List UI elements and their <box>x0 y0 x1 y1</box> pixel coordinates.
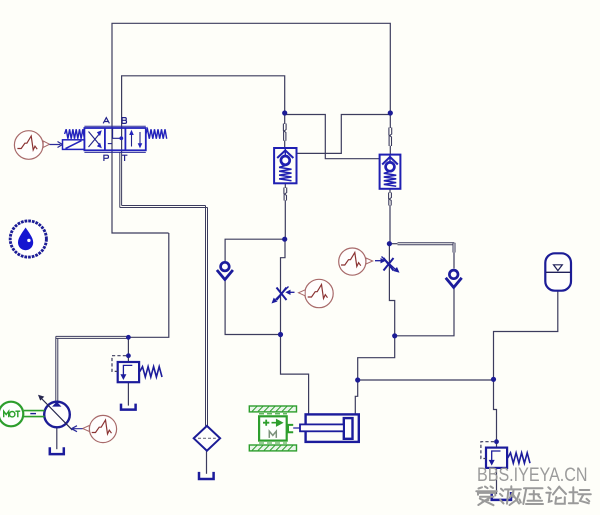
node N3 <box>282 237 287 242</box>
relief valve RV2 <box>481 442 530 468</box>
wire node N8 down to relief valve RV2 <box>494 380 497 448</box>
node N8 <box>491 377 496 382</box>
wire relief valve RV1 branch <box>127 337 129 362</box>
wire hose jog left lower <box>284 188 287 201</box>
wire node N7 right to node N8 <box>358 379 494 381</box>
wire hose jog left upper <box>283 124 286 141</box>
wire node N2 down to right compensator <box>389 113 391 155</box>
wire node N5 down to cylinder left port <box>281 335 309 415</box>
valve pin label T <box>122 155 128 161</box>
valve spring right <box>146 129 167 139</box>
glyph lun <box>546 487 566 504</box>
node N6 <box>392 333 397 338</box>
wire P riser down to pump line <box>128 233 168 337</box>
wire pilot cross: node N2 to left compensator pilot <box>297 115 391 154</box>
node N1 <box>282 110 287 115</box>
node RV1 pilot tap <box>126 353 131 358</box>
check valve CV1 (left) <box>217 262 233 279</box>
wire pump to tank <box>56 428 58 449</box>
wall bottom <box>249 445 296 451</box>
wire B-port loop: valve B up, across, down to node N1 <box>122 76 285 153</box>
tank symbol T4 (below filter) <box>199 472 214 479</box>
wire node N3 down through orifice to node N5 <box>281 239 286 334</box>
wire hose jog right upper <box>389 128 392 147</box>
wire filter to tank <box>206 451 208 474</box>
wire right compensator to node N4 <box>388 189 391 244</box>
svg-text:BBS.IYEYA.CN: BBS.IYEYA.CN <box>477 465 588 486</box>
wire node N6 staircase to node N7 <box>358 336 395 380</box>
wire node N4 right to check valve CV2 branch <box>389 243 397 245</box>
valve cell 3 parallel arrows <box>129 130 142 149</box>
valve body <box>84 128 145 150</box>
wire node N4 down through orifice to node N6 <box>389 244 394 336</box>
glyph ai <box>476 486 497 505</box>
glyph ya <box>523 488 543 504</box>
tank symbol T2 (below RV2) <box>492 492 511 500</box>
electric motor MOT <box>0 402 44 427</box>
tank symbol T3 (below pump) <box>50 447 64 454</box>
wire node N1 down to left compensator <box>284 113 286 148</box>
wire hose jog right lower <box>389 193 392 206</box>
wire A-port loop: valve A up, across top, down to node N2 <box>112 23 390 152</box>
valve cell 2 centre symbol <box>108 128 123 143</box>
wire node N7 down to cylinder right port <box>355 380 357 414</box>
wire valve P down and right to riser <box>112 153 169 234</box>
wire valve T down and right (double return line) <box>120 153 208 426</box>
glyph ye <box>500 486 521 505</box>
node N2 <box>388 110 393 115</box>
wire left compensator to node N3 <box>284 183 286 239</box>
signal source S3 (right orifice command) <box>339 248 373 275</box>
node RV2 pilot tap <box>494 439 499 444</box>
wire pump output double line <box>56 336 129 401</box>
signal source S1 (valve command) <box>14 131 62 160</box>
signal source S4 (pump command) <box>72 415 117 442</box>
node N7 <box>355 377 360 382</box>
variable orifice X2 (right) <box>375 257 400 273</box>
mass body <box>259 416 287 440</box>
pump P1 (variable displacement) <box>38 395 72 430</box>
node N5 <box>278 332 283 337</box>
valve rails <box>84 126 145 152</box>
directional valve V1 (4/3 proportional) <box>63 118 167 161</box>
valve pin label B <box>122 118 126 124</box>
mass load M1 <box>249 406 296 451</box>
tank symbol T1 (below RV1) <box>121 404 136 410</box>
hydraulic cylinder CYL1 <box>293 414 359 442</box>
valve spring left <box>65 129 85 139</box>
node N4 <box>387 241 392 246</box>
compensator valve F1 (left pressure compensator) <box>274 148 296 183</box>
relief valve RV1 <box>112 356 162 383</box>
wire node N8 up-left to accumulator <box>494 291 558 380</box>
filter FL1 <box>194 426 220 451</box>
oil drop icon <box>10 221 46 257</box>
wire node N3 left to check valve CV1 branch <box>225 239 285 334</box>
wire pilot cross: node N1 to right compensator pilot <box>285 115 380 159</box>
valve cell 1 crossed arrows <box>89 130 102 148</box>
rod coupling <box>288 425 293 432</box>
accumulator AC1 <box>545 253 571 290</box>
check valve CV2 (right) <box>446 270 462 287</box>
watermark Chinese glyph strokes <box>476 486 591 505</box>
valve pin label P <box>104 155 109 161</box>
wire RV2 to tank <box>496 468 498 494</box>
valve solenoid <box>63 140 85 150</box>
wire RV1 to tank <box>127 382 129 405</box>
valve pin label A <box>103 118 109 124</box>
variable orifice X1 (left) <box>272 287 295 304</box>
glyph tan <box>569 487 591 503</box>
node RV1 tap <box>126 335 131 340</box>
wall top <box>249 406 296 412</box>
contact dashes <box>259 414 287 443</box>
compensator valve F2 (right pressure compensator) <box>380 155 401 189</box>
signal source S2 (left orifice command) <box>299 279 334 307</box>
